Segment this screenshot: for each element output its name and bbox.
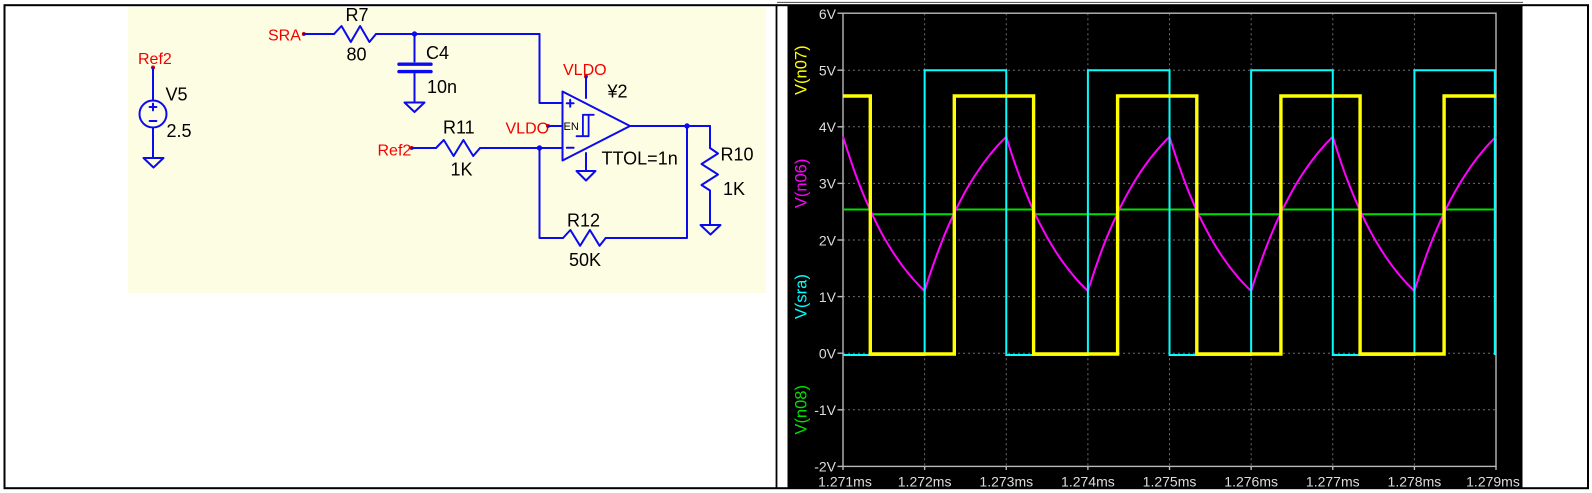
svg-text:1.277ms: 1.277ms <box>1306 474 1360 490</box>
schematic background <box>128 7 766 293</box>
ground (below R10) <box>701 225 721 235</box>
svg-text:R12: R12 <box>567 211 600 231</box>
wire <box>709 126 711 148</box>
wire <box>376 33 540 35</box>
resistor R12 <box>563 230 606 246</box>
svg-text:1.278ms: 1.278ms <box>1388 474 1442 490</box>
svg-text:V(n08): V(n08) <box>793 385 811 435</box>
svg-text:1.274ms: 1.274ms <box>1061 474 1115 490</box>
svg-text:R10: R10 <box>721 145 754 165</box>
trace V(sra) cyan <box>843 70 1495 355</box>
svg-text:R7: R7 <box>346 5 369 25</box>
wire <box>585 153 587 170</box>
svg-text:2V: 2V <box>819 232 837 248</box>
wire <box>414 74 416 102</box>
capacitor C4 <box>399 62 431 65</box>
wire <box>548 125 563 127</box>
svg-text:10n: 10n <box>427 77 457 97</box>
svg-text:SRA: SRA <box>268 28 301 45</box>
wire <box>414 34 416 62</box>
svg-text:Ref2: Ref2 <box>378 143 412 160</box>
wire <box>480 147 540 149</box>
wire <box>152 68 154 101</box>
svg-text:2.5: 2.5 <box>167 121 192 141</box>
svg-text:V5: V5 <box>166 85 188 105</box>
junction <box>537 145 542 150</box>
svg-text:6V: 6V <box>819 6 837 22</box>
grid horizontal dashed lines <box>843 13 1496 466</box>
wire <box>540 148 564 238</box>
y axis ticks <box>838 13 1497 470</box>
svg-text:80: 80 <box>347 45 367 65</box>
svg-text:0V: 0V <box>819 346 837 362</box>
svg-text:1K: 1K <box>451 160 473 180</box>
svg-text:1V: 1V <box>819 289 837 305</box>
wire <box>709 191 711 225</box>
y axis labels <box>814 6 836 475</box>
svg-text:1K: 1K <box>723 179 745 199</box>
svg-text:VLDO: VLDO <box>506 121 550 138</box>
svg-text:1.276ms: 1.276ms <box>1224 474 1278 490</box>
svg-text:TTOL=1n: TTOL=1n <box>602 149 678 169</box>
junction <box>684 123 689 128</box>
ground (below V5) <box>144 158 164 168</box>
wire <box>606 126 687 238</box>
svg-text:EN: EN <box>564 121 579 133</box>
trace V(n08) green <box>843 210 1496 215</box>
svg-text:¥2: ¥2 <box>607 82 628 102</box>
voltage source V5 <box>140 101 167 128</box>
svg-text:1.273ms: 1.273ms <box>979 474 1033 490</box>
svg-text:50K: 50K <box>569 250 601 270</box>
junction <box>412 31 417 36</box>
svg-text:5V: 5V <box>819 63 837 79</box>
resistor R10 <box>702 148 719 191</box>
top hairline over waveform cell <box>777 1 1523 3</box>
ground (below C4) <box>405 103 425 113</box>
svg-text:1.279ms: 1.279ms <box>1466 474 1520 490</box>
svg-text:1.271ms: 1.271ms <box>818 474 872 490</box>
x axis labels <box>818 474 1520 490</box>
wire <box>152 128 154 159</box>
wire <box>540 147 563 149</box>
svg-text:4V: 4V <box>819 119 837 135</box>
op-amp U2 (comparator ¥2) <box>563 92 631 161</box>
wire <box>585 77 587 98</box>
svg-text:3V: 3V <box>819 176 837 192</box>
wire <box>540 34 563 103</box>
trace V(n07) yellow <box>843 96 1496 354</box>
resistor R11 <box>436 140 480 156</box>
svg-text:R11: R11 <box>443 118 475 138</box>
svg-text:1.272ms: 1.272ms <box>898 474 952 490</box>
svg-text:V(n06): V(n06) <box>793 159 811 209</box>
svg-text:V(sra): V(sra) <box>793 274 811 319</box>
plot border <box>843 13 1496 466</box>
wire <box>412 147 436 149</box>
wire <box>304 33 334 35</box>
svg-text:C4: C4 <box>426 43 449 63</box>
ground (below op-amp) <box>577 171 596 181</box>
wire (output) <box>630 125 710 127</box>
trace V(n06) magenta <box>843 136 1496 291</box>
svg-text:V(n07): V(n07) <box>793 45 811 95</box>
table cell divider <box>776 5 778 488</box>
svg-text:-2V: -2V <box>814 459 836 475</box>
svg-text:-1V: -1V <box>814 402 836 418</box>
schmitt hysteresis glyph <box>577 115 594 136</box>
waveform panel background <box>788 6 1523 488</box>
svg-text:1.275ms: 1.275ms <box>1143 474 1197 490</box>
svg-text:Ref2: Ref2 <box>138 51 172 68</box>
resistor R7 <box>334 26 376 42</box>
